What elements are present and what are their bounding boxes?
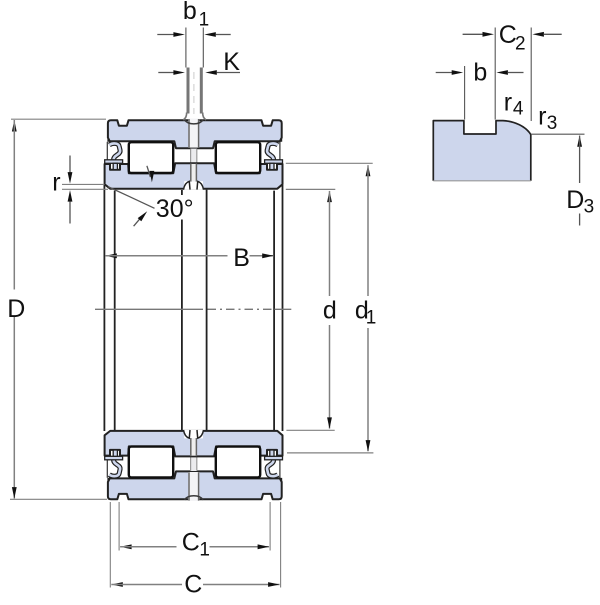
left roller (upper row) xyxy=(129,142,173,173)
svg-text:1: 1 xyxy=(199,539,210,560)
D extension line bottom xyxy=(10,498,107,500)
lubrication hole through rib gap xyxy=(190,149,197,164)
svg-text:r: r xyxy=(52,169,60,197)
bore silhouette line right xyxy=(282,185,284,431)
svg-text:r: r xyxy=(538,103,546,131)
svg-text:1: 1 xyxy=(366,307,377,328)
bore oil groove edge right xyxy=(206,190,208,431)
C2 dimension xyxy=(463,33,483,35)
svg-text:D: D xyxy=(566,186,584,214)
inner ring (upper half section) xyxy=(105,163,283,189)
d dimension line xyxy=(327,191,332,203)
bore silhouette line left xyxy=(103,185,105,431)
d1 dimension line xyxy=(366,165,371,177)
K slot walls above bearing xyxy=(187,68,190,114)
svg-text:b: b xyxy=(473,59,487,87)
D3 dimension xyxy=(577,135,582,147)
inner ring center slot and bore groove xyxy=(184,181,203,190)
svg-text:C: C xyxy=(182,529,200,557)
B dimension xyxy=(105,253,117,258)
d extension lines xyxy=(286,188,336,190)
bore chamfer line left xyxy=(114,191,116,431)
C1 dimension xyxy=(120,544,132,549)
svg-text:30°: 30° xyxy=(156,195,194,223)
svg-text:3: 3 xyxy=(547,113,558,134)
svg-text:b: b xyxy=(183,0,197,25)
svg-text:2: 2 xyxy=(515,34,526,55)
left seal xyxy=(106,142,108,164)
bore chamfer line right xyxy=(273,191,275,431)
C dimension xyxy=(111,582,123,587)
D extension line top xyxy=(11,118,106,120)
30 deg leader line xyxy=(108,187,155,209)
mirrored lower half section xyxy=(105,430,283,501)
hole centerline dashes xyxy=(193,72,195,114)
outer ring chamfer notch right xyxy=(279,138,281,142)
r dimension arrows xyxy=(69,156,71,173)
roller leader arrow xyxy=(147,166,151,177)
svg-text:C: C xyxy=(184,570,202,598)
centerline (axis) xyxy=(95,308,203,310)
outer ring (upper half section) xyxy=(108,120,282,148)
right roller (upper row) xyxy=(216,142,260,173)
right seal xyxy=(279,142,281,164)
d1 extension lines xyxy=(286,162,373,164)
svg-text:1: 1 xyxy=(199,9,210,30)
detail extension lines xyxy=(464,66,466,120)
K dimension arrows xyxy=(158,72,173,74)
r extension lines xyxy=(62,183,104,185)
svg-text:3: 3 xyxy=(584,197,595,218)
svg-text:d: d xyxy=(323,297,337,325)
D3 extension line xyxy=(531,133,585,135)
D dimension line and arrows xyxy=(12,120,17,132)
C extension lines xyxy=(109,502,111,588)
lubrication hole through outer ring xyxy=(188,119,199,148)
svg-text:B: B xyxy=(233,244,250,272)
30 deg arrow xyxy=(134,218,141,226)
slot opening flare feet xyxy=(183,113,186,120)
outer ring chamfer notch left xyxy=(108,138,110,142)
b1 extension lines xyxy=(185,28,187,68)
svg-text:4: 4 xyxy=(513,99,524,120)
svg-text:D: D xyxy=(7,295,25,323)
detail view outer ring segment xyxy=(433,121,531,181)
svg-text:K: K xyxy=(223,48,240,76)
b dimension (detail) xyxy=(436,72,452,74)
C1 extension lines xyxy=(118,502,120,551)
b1 dimension arrows xyxy=(157,34,173,36)
bore oil groove edge left xyxy=(181,190,183,195)
svg-text:r: r xyxy=(504,89,512,117)
